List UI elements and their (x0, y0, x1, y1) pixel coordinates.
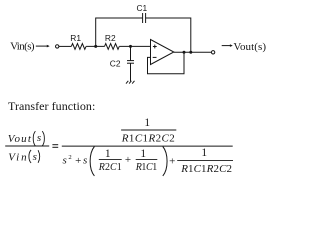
svg-text:C1: C1 (137, 3, 148, 13)
svg-text:C2: C2 (110, 58, 121, 68)
svg-text:Vin(s): Vin(s) (10, 40, 35, 52)
svg-text:R2: R2 (105, 33, 116, 43)
svg-text:s: s (37, 132, 41, 144)
svg-text:s: s (33, 151, 37, 163)
svg-text:1: 1 (144, 117, 150, 129)
svg-text:R1C1R2C2: R1C1R2C2 (121, 132, 175, 144)
svg-text:+: + (169, 156, 175, 168)
svg-text:2: 2 (68, 154, 71, 161)
svg-text:+: + (75, 155, 81, 167)
svg-text:R1C1: R1C1 (135, 162, 158, 173)
svg-text:Vout(s): Vout(s) (233, 41, 266, 53)
svg-text:s: s (83, 155, 87, 167)
svg-text:R1: R1 (70, 33, 81, 43)
svg-text:1: 1 (201, 147, 207, 159)
svg-text:s: s (63, 155, 67, 167)
svg-text:R2C1: R2C1 (98, 162, 122, 173)
svg-text:Transfer function:: Transfer function: (8, 99, 95, 113)
svg-text:1: 1 (140, 148, 146, 160)
svg-text:Vin: Vin (8, 152, 27, 164)
svg-text:R1C1R2C2: R1C1R2C2 (180, 163, 232, 175)
svg-text:1: 1 (105, 148, 111, 160)
svg-text:Vout: Vout (8, 133, 32, 145)
svg-text:+: + (125, 154, 131, 166)
